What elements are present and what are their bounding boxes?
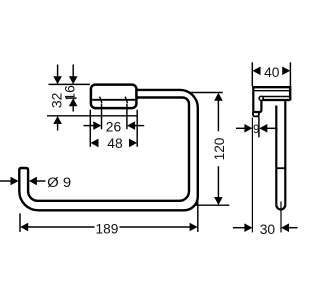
svg-text:30: 30 <box>260 222 276 238</box>
hanging bar right edge (side) <box>284 101 286 205</box>
arrow 189 right <box>190 223 198 232</box>
svg-text:48: 48 <box>107 136 123 152</box>
extension line 189 right <box>197 197 199 232</box>
arrow 32 top <box>53 76 62 84</box>
extension line 40 left <box>251 62 253 86</box>
dim 32 <box>57 65 59 78</box>
dim diameter 9 <box>0 180 11 182</box>
extension line block top <box>49 83 91 85</box>
side profile right edge <box>289 86 291 100</box>
side bar top line <box>263 96 291 98</box>
arrow 30 left <box>244 223 252 232</box>
side arm bottom edge <box>262 99 290 101</box>
arrow 120 bottom <box>214 197 223 205</box>
bar joint line (side) <box>276 167 285 169</box>
side plate right edge + bottom edge <box>252 100 261 112</box>
arrow 26 right <box>127 121 135 130</box>
side wall plate left edge <box>252 86 254 112</box>
arrow 9 right <box>259 124 267 133</box>
svg-text:189: 189 <box>96 221 119 237</box>
extension line 189 left <box>19 213 21 232</box>
hanging bar rounded bottom (side) <box>276 205 285 210</box>
towel ring outline (front view) <box>19 90 198 210</box>
arrow 48 right <box>129 139 137 148</box>
extension line 16 bottom <box>66 97 77 99</box>
arrow dia9 right <box>29 177 37 186</box>
extension line 26 right <box>126 104 128 130</box>
arrow 120 top <box>214 93 223 101</box>
side bar rounded end cap (small circle) <box>259 96 263 100</box>
reference line right of 9 dim <box>258 116 260 137</box>
extension line 30 right <box>280 202 282 233</box>
dim 26 <box>84 125 95 127</box>
arrow 32 bottom <box>53 116 62 124</box>
extension line 26 left <box>101 104 103 130</box>
arrow dia9 left <box>11 177 19 186</box>
wall-mount block (front view) <box>91 85 136 109</box>
svg-text:16: 16 <box>62 85 78 101</box>
arrow 26 left <box>93 121 101 130</box>
arrow 40 left <box>253 67 261 76</box>
bar line through block <box>92 99 135 101</box>
hanging bar left edge (side) <box>275 106 277 205</box>
extension line 120 top <box>190 92 223 94</box>
dim 30 <box>233 227 245 229</box>
arrow 48 left <box>91 139 99 148</box>
side profile top inner line <box>253 90 289 92</box>
svg-text:Ø 9: Ø 9 <box>47 175 71 191</box>
dim 9 (side) <box>236 127 245 129</box>
svg-text:120: 120 <box>212 137 228 160</box>
arrow 189 left <box>20 223 28 232</box>
extension line plate bottom (32) <box>47 115 137 117</box>
side profile top edge <box>252 86 290 88</box>
arrow 9 left <box>244 124 252 133</box>
arrow 16 top <box>69 76 78 84</box>
svg-text:40: 40 <box>264 65 280 81</box>
screw hole tick left <box>100 97 102 103</box>
extension line 30 left <box>251 118 253 233</box>
arrow 30 right <box>281 223 289 232</box>
extension line 48 right <box>136 110 138 147</box>
svg-text:9: 9 <box>253 124 259 136</box>
screw hole tick right <box>125 97 127 103</box>
extension line 48 left <box>89 110 91 147</box>
extension line 120 bottom <box>195 204 229 206</box>
dim 16 <box>72 65 74 78</box>
arrow 40 right <box>282 67 290 76</box>
svg-text:26: 26 <box>106 120 122 136</box>
arrow 16 bottom <box>69 98 78 106</box>
extension line 40 right <box>289 62 291 86</box>
side plate bottom stub <box>253 112 259 116</box>
